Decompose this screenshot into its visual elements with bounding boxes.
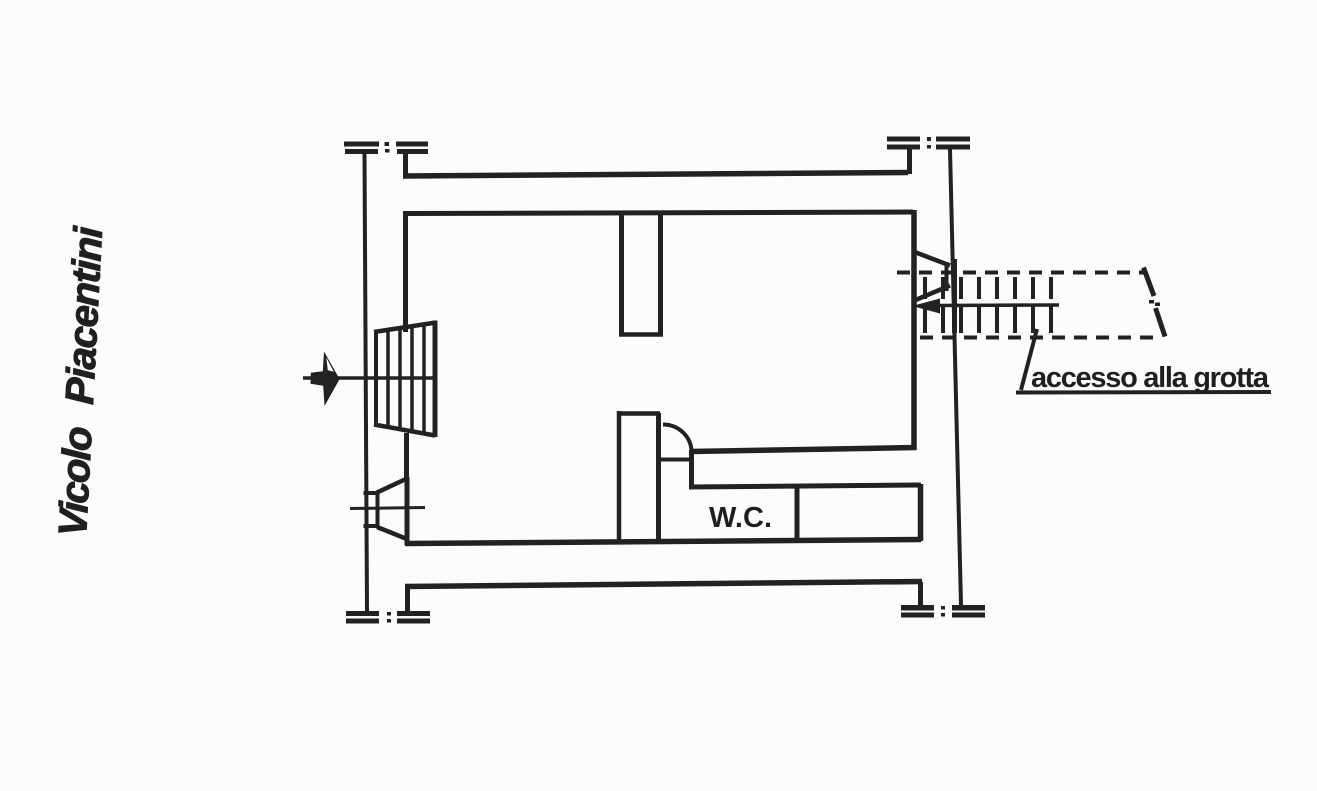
stairs dashed outline top bbox=[897, 271, 1146, 275]
stair treads bbox=[925, 277, 1051, 333]
door swing arc bbox=[663, 425, 692, 453]
wall inner-bottom bbox=[405, 540, 921, 544]
wc right wall bbox=[918, 484, 924, 541]
svg-text:Vicolo: Vicolo bbox=[51, 425, 101, 537]
street line left bbox=[365, 154, 368, 611]
svg-text:W.C.: W.C. bbox=[709, 502, 772, 534]
svg-text:Piacentini: Piacentini bbox=[58, 225, 111, 406]
entrance arrow line bbox=[303, 376, 437, 380]
svg-text:accesso alla grotta: accesso alla grotta bbox=[1031, 362, 1270, 394]
wall left (upper segment) bbox=[403, 211, 408, 332]
splayed opening right wall bbox=[912, 251, 955, 333]
wall outer-bottom right jog bbox=[918, 582, 923, 605]
break symbol bottom-right bbox=[901, 605, 985, 618]
leader line to label bbox=[1021, 329, 1037, 390]
wall outer-top left jog bbox=[403, 150, 408, 178]
break symbol bottom-left bbox=[346, 611, 430, 624]
door sill line bbox=[657, 458, 694, 462]
wc left wall bbox=[689, 450, 694, 489]
wall outer-top bbox=[403, 173, 908, 177]
break symbol top-right bbox=[887, 137, 970, 150]
entrance arrow dart bbox=[311, 352, 340, 407]
wall outer-bottom bbox=[405, 582, 922, 587]
wc divider wall bbox=[795, 486, 800, 541]
wall outer-top right jog bbox=[907, 149, 912, 174]
wall outer-bottom left jog bbox=[405, 584, 410, 611]
wall left (corner to bottom) bbox=[405, 536, 410, 545]
wall left (between door and window) bbox=[404, 433, 409, 480]
splayed window lower-left bbox=[350, 477, 425, 541]
wall pier left of door bbox=[617, 411, 622, 543]
wc top wall bbox=[689, 485, 921, 487]
break symbol top-left bbox=[344, 142, 428, 155]
street line right bbox=[950, 150, 961, 606]
wall inner-south of right room bbox=[690, 448, 916, 452]
stair direction arrow line bbox=[938, 303, 1059, 307]
wall right (inner face) bbox=[911, 210, 917, 450]
stairs dashed slanted right edge bbox=[1144, 268, 1155, 297]
wall inner-top bbox=[404, 212, 913, 214]
partition wall between rooms bbox=[619, 214, 624, 334]
stairs dashed outline bottom bbox=[920, 336, 1161, 340]
entrance doorway hatched (left wall) bbox=[374, 321, 436, 438]
label underline bbox=[1016, 390, 1271, 395]
street label Vicolo Piacentini bbox=[51, 225, 111, 538]
door leaf / pier right face bbox=[656, 413, 661, 542]
stair direction arrowhead bbox=[912, 299, 940, 314]
